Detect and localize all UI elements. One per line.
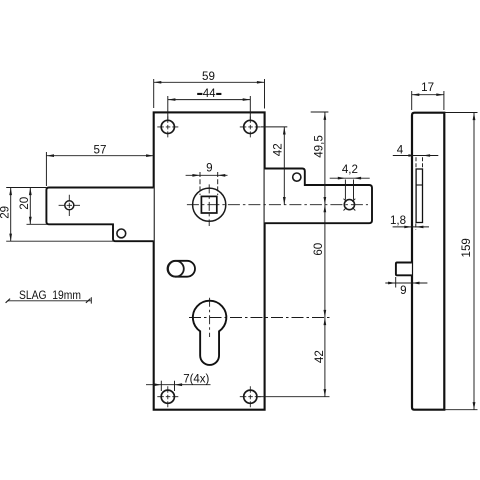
svg-text:42: 42 xyxy=(272,143,285,156)
strike small hole xyxy=(293,173,301,181)
latch hole xyxy=(117,229,126,238)
latch target symbol xyxy=(59,195,80,216)
dimension 57 xyxy=(46,144,153,186)
faceplate slot xyxy=(416,169,422,223)
dimension 4.2 xyxy=(330,163,370,200)
case fixing hole top-right xyxy=(240,116,261,137)
case fixing hole bottom-left xyxy=(157,386,178,407)
dimension 1.8 xyxy=(390,214,429,230)
oval slot xyxy=(168,261,196,277)
spindle hole centerlines xyxy=(187,184,368,226)
dimension 4 xyxy=(393,143,439,168)
svg-text:20: 20 xyxy=(18,197,31,210)
latch bolt plate xyxy=(46,188,153,242)
dimension 20 xyxy=(18,188,48,225)
dimension 9 spindle xyxy=(186,162,228,195)
note SLAG 19mm xyxy=(6,288,92,304)
side latch bolt tab xyxy=(396,263,412,276)
dimension 17 xyxy=(412,81,444,110)
dimension 159 xyxy=(445,113,478,410)
svg-text:4: 4 xyxy=(397,143,404,156)
svg-text:57: 57 xyxy=(94,144,107,157)
case fixing hole bottom-right xyxy=(240,386,261,407)
dimension 29 xyxy=(0,188,113,242)
svg-text:7(4x): 7(4x) xyxy=(183,374,209,386)
cylinder hole centerlines xyxy=(189,298,330,337)
dimension 7(4x) xyxy=(146,374,211,391)
slot pin circle xyxy=(168,261,184,277)
svg-text:159: 159 xyxy=(460,238,473,257)
faceplate side view xyxy=(412,113,444,410)
svg-text:4,2: 4,2 xyxy=(342,163,358,176)
spindle hole circle xyxy=(193,188,226,221)
euro profile cylinder hole xyxy=(193,301,227,365)
spindle square 9mm xyxy=(201,196,216,213)
lock case front view xyxy=(154,112,265,409)
svg-text:59: 59 xyxy=(202,70,215,83)
svg-text:49,5: 49,5 xyxy=(313,135,326,158)
svg-text:9: 9 xyxy=(206,162,212,175)
svg-text:44: 44 xyxy=(203,87,216,100)
dimension 59 xyxy=(154,70,265,108)
case fixing hole top-left xyxy=(157,116,178,137)
dimension 60 xyxy=(312,205,326,318)
strike protrusion xyxy=(265,169,372,224)
strike screw hole xyxy=(344,199,356,211)
svg-text:17: 17 xyxy=(421,81,434,94)
svg-text:9: 9 xyxy=(400,284,406,297)
dimension 42 lower xyxy=(258,318,330,397)
svg-text:SLAG 19mm: SLAG 19mm xyxy=(19,288,81,302)
svg-text:60: 60 xyxy=(312,243,325,256)
dimension 49.5 xyxy=(311,112,329,205)
dimension 42 upper xyxy=(261,127,287,205)
dimension 44 xyxy=(168,87,251,120)
svg-text:1,8: 1,8 xyxy=(390,214,406,227)
dimension 9 side xyxy=(385,277,427,297)
svg-text:42: 42 xyxy=(313,350,326,363)
svg-text:29: 29 xyxy=(0,206,11,219)
